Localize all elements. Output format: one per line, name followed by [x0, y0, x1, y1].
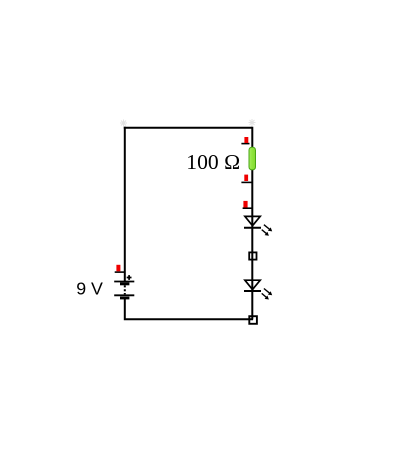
- wire left (below battery) + wire bottom: [124, 299, 253, 319]
- LED D1 cathode bar: [244, 227, 261, 229]
- LED D2: [244, 280, 272, 299]
- LED D1: [244, 216, 272, 235]
- LED D1 tick (red probe): [243, 201, 252, 208]
- battery plate long top (+): [114, 281, 134, 283]
- LED D2 triangle: [245, 280, 260, 289]
- resistor R1 body 100 ohm: [249, 147, 256, 170]
- battery B1 9V: [114, 275, 134, 298]
- LED D1 triangle: [245, 216, 260, 225]
- LED D2 emission arrow 2: [262, 293, 269, 299]
- wire top: [124, 127, 253, 129]
- wire left (top of battery): [124, 127, 126, 282]
- LED D2 cathode bar: [244, 290, 261, 292]
- LED D1 emission arrow 2: [262, 230, 269, 236]
- battery plate long bottom: [114, 294, 134, 296]
- svg-text:100 Ω: 100 Ω: [186, 150, 240, 174]
- LED D2 emission arrow 1: [264, 289, 272, 296]
- LED D1 emission arrow 1: [264, 225, 272, 232]
- svg-text:9 V: 9 V: [76, 279, 103, 299]
- battery plate short thick bottom (-): [120, 297, 129, 300]
- node sparkle top-left: [120, 120, 127, 127]
- battery plate short thick: [120, 282, 129, 285]
- battery current tick (red probe): [115, 265, 125, 272]
- resistor R1 tick top (red probe): [241, 137, 249, 144]
- node sparkle top-right: [249, 119, 256, 126]
- wire right: [251, 127, 253, 320]
- resistor R1 tick bottom (red probe): [241, 175, 251, 183]
- battery plus sign: [127, 275, 132, 280]
- node box bottom-right corner: [249, 316, 257, 324]
- node box between LEDs: [249, 252, 256, 259]
- battery dotted cell line: [124, 285, 126, 294]
